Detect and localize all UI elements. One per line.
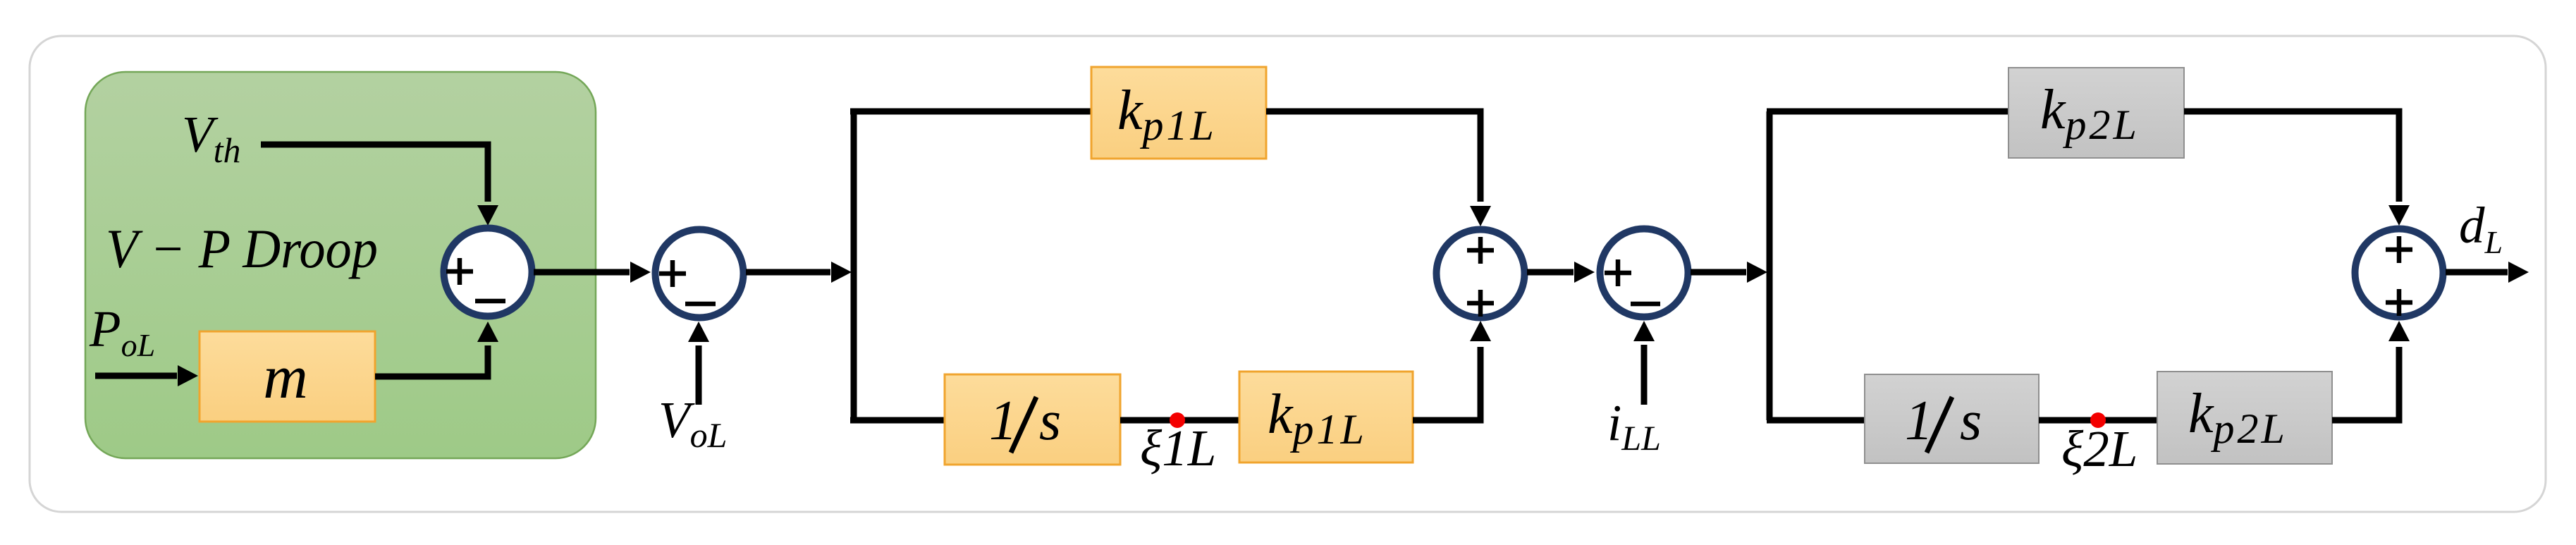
wire S4 to branch node B2 <box>1691 269 1746 276</box>
svg-text:ξ2L: ξ2L <box>2061 420 2138 477</box>
wire VoL into S2 bottom <box>696 345 702 405</box>
wire kp2L to S5 top <box>2184 111 2399 202</box>
wire S5 to output dL <box>2446 269 2508 276</box>
summing junction S3 <box>1437 230 1525 318</box>
wire 1/s to kp1L bottom <box>1120 417 1241 424</box>
integrator block 1/s (left) <box>945 374 1120 465</box>
gain block m <box>200 331 375 422</box>
arrowhead into S3 bottom <box>1470 321 1491 341</box>
arrowhead into S2 <box>630 262 651 283</box>
arrowhead into S3 top <box>1470 206 1491 226</box>
wire iLL into S4 bottom <box>1641 345 1648 405</box>
proportional block kp2L (top) <box>2008 68 2184 158</box>
summing junction S1 <box>444 228 532 317</box>
svg-text:V − P Droop: V − P Droop <box>106 218 378 279</box>
node xi1L dot <box>1170 412 1185 428</box>
S2 plus sign <box>659 260 686 287</box>
wire m output to S1 bottom <box>375 345 488 376</box>
S3 plus top <box>1467 237 1494 264</box>
summing junction S4 <box>1600 229 1688 317</box>
S3 plus bottom <box>1467 290 1494 317</box>
arrowhead output <box>2508 262 2529 283</box>
wire B2 top to kp2L block <box>1767 109 2010 115</box>
summing junction S2 <box>656 230 744 318</box>
wire B2 bottom to integrator 1/s right <box>1767 417 1866 424</box>
wire kp1L bottom to S3 <box>1413 347 1480 420</box>
V-P Droop group box <box>85 72 596 458</box>
S5 plus bottom <box>2386 289 2412 316</box>
wire B1 bottom to integrator 1/s <box>850 417 946 424</box>
arrowhead into gain m <box>178 365 198 386</box>
wire S1 to S2 <box>534 269 630 276</box>
S5 plus top <box>2386 236 2412 263</box>
node xi2L dot <box>2090 412 2106 428</box>
wire kp1L to S3 top <box>1266 111 1480 202</box>
arrowhead into S5 bottom <box>2388 321 2410 341</box>
S1 minus sign <box>475 299 505 304</box>
proportional block kp1L (top) <box>1091 67 1266 159</box>
branch B1 vertical wire <box>851 111 857 420</box>
S4 minus sign <box>1631 302 1660 307</box>
wire kp2L bottom to S5 <box>2332 347 2399 420</box>
arrowhead into B2 <box>1747 262 1767 283</box>
branch B2 vertical wire <box>1767 111 1773 420</box>
S1 plus sign <box>446 258 473 285</box>
arrowhead VoL <box>688 322 709 342</box>
svg-text:s: s <box>1039 390 1061 452</box>
integrator block 1/s (right) <box>1865 374 2039 463</box>
svg-text:s: s <box>1960 390 1982 452</box>
arrowhead iLL <box>1633 321 1655 341</box>
svg-text:ξ1L: ξ1L <box>1140 420 1216 477</box>
wire 1/s to kp2L bottom <box>2039 417 2159 424</box>
wire S2 to branch node B1 <box>746 269 830 276</box>
wire PoL into gain m <box>95 373 177 379</box>
arrowhead into S5 top <box>2388 205 2410 226</box>
wire S3 to S4 <box>1527 269 1574 276</box>
wire B1 top to kp1L block <box>850 109 1093 115</box>
svg-text:m: m <box>263 343 308 412</box>
arrowhead into S1 bottom <box>477 322 498 342</box>
wire Vth to summing junction S1 <box>261 145 488 202</box>
S2 minus sign <box>685 302 716 307</box>
arrowhead into S4 <box>1574 262 1595 283</box>
S4 plus sign <box>1605 259 1631 286</box>
summing junction S5 <box>2355 229 2443 317</box>
arrowhead into B1 <box>831 262 852 283</box>
integral gain block kp2L (bottom) <box>2157 372 2332 464</box>
arrowhead into S1 top <box>477 205 498 226</box>
integral gain block kp1L (bottom) <box>1239 372 1413 463</box>
